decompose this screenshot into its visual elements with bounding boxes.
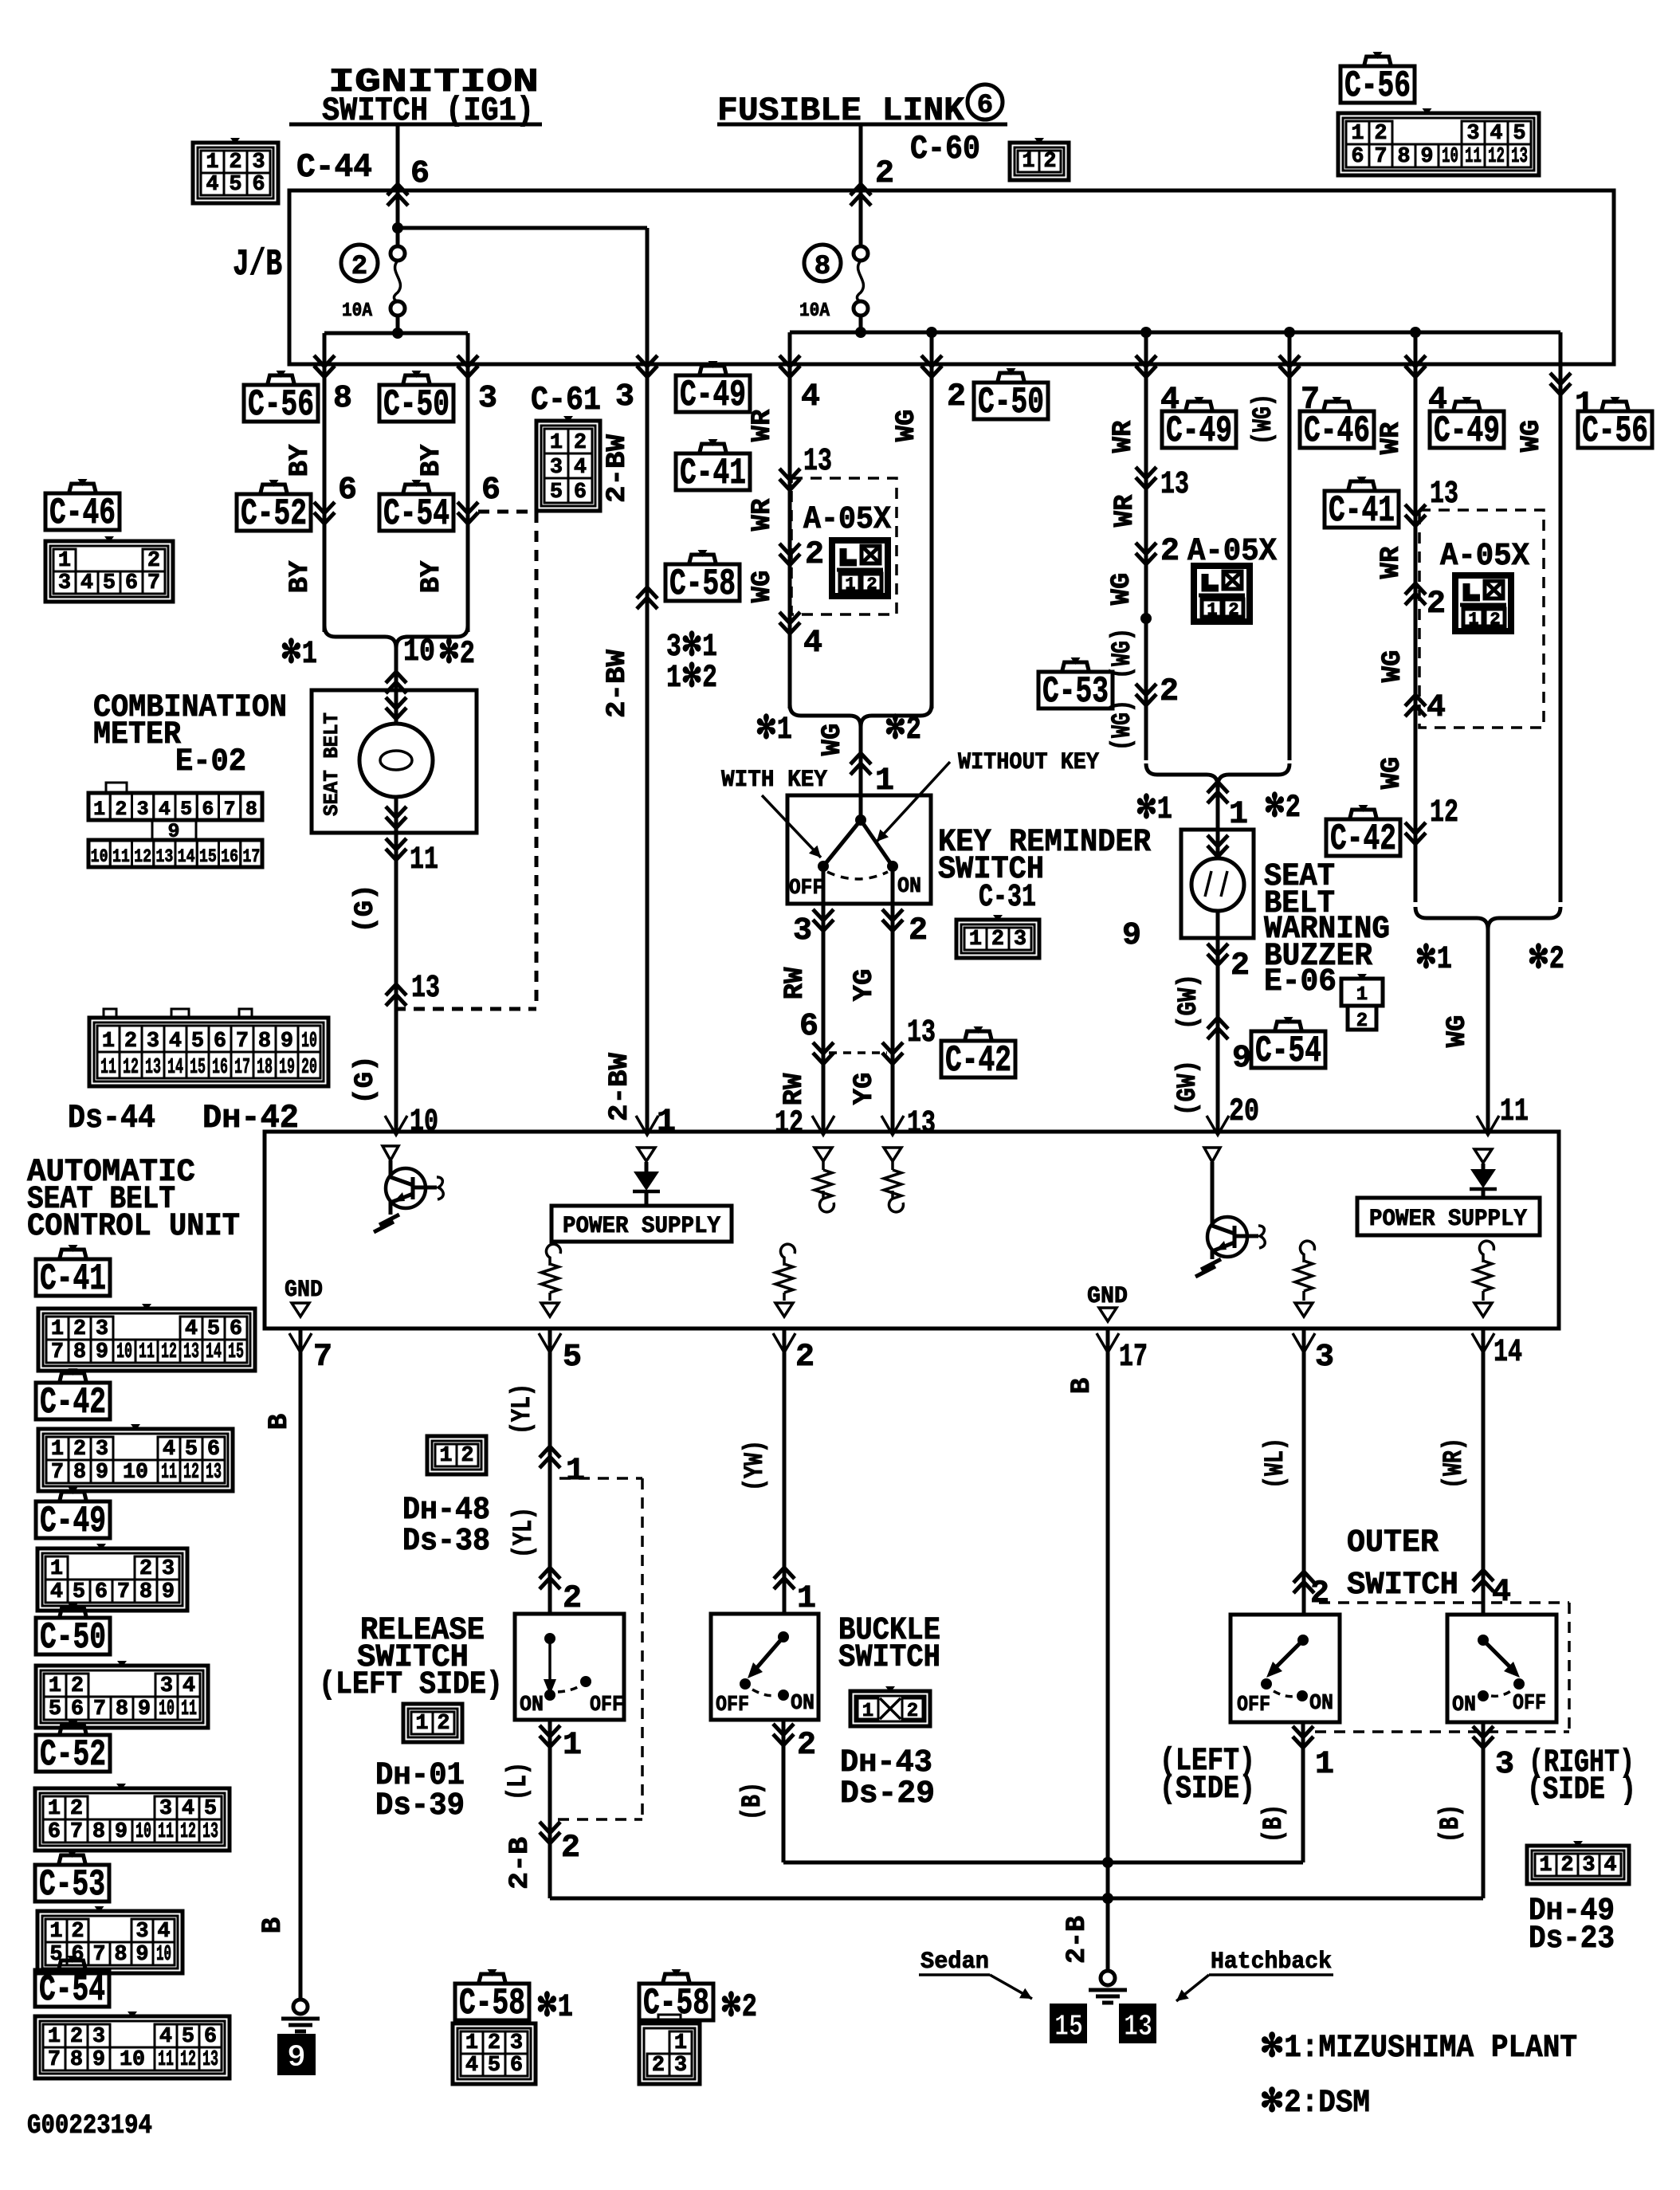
variant labels *1 WG *2 with key reminder feed (756, 712, 921, 799)
connector C-41 pin grid (38, 1304, 255, 1371)
A-05X title 2 (1187, 534, 1277, 570)
svg-text:✻1: ✻1 (536, 1990, 573, 2026)
svg-text:1: 1 (58, 549, 71, 573)
svg-text:5: 5 (103, 571, 116, 595)
svg-text:2-BW: 2-BW (603, 434, 633, 503)
brace joining WG wires right (1415, 907, 1560, 1133)
svg-text:C-41: C-41 (40, 1258, 106, 1300)
svg-text:BY: BY (417, 560, 447, 593)
svg-text:20: 20 (301, 1056, 317, 1080)
svg-text:C-56: C-56 (1344, 65, 1411, 107)
svg-text:5: 5 (229, 173, 241, 197)
svg-text:(YL): (YL) (509, 1507, 540, 1558)
connector C-50 pin grid (36, 1661, 208, 1728)
wire label (WG) col1438 (1108, 628, 1138, 679)
svg-text:2: 2 (437, 1712, 449, 1736)
svg-text:2: 2 (229, 151, 241, 175)
svg-text:E-06: E-06 (1264, 964, 1337, 1000)
svg-text:2: 2 (139, 1557, 152, 1581)
svg-text:4: 4 (1490, 122, 1502, 146)
svg-text:2: 2 (70, 2025, 83, 2049)
svg-text:7: 7 (51, 1340, 64, 1364)
wire ignition switch to J/B pin 6 (387, 124, 430, 228)
svg-text:C-50: C-50 (978, 382, 1044, 423)
seat belt warning buzzer box (1181, 830, 1254, 938)
svg-text:8: 8 (258, 1030, 271, 1054)
svg-text:C-49: C-49 (40, 1501, 106, 1542)
right side label (1527, 1745, 1636, 1808)
svg-text:1: 1 (1539, 1854, 1552, 1878)
wire J/B internal to pin 3 (2-BW feed) (646, 228, 650, 364)
svg-text:10: 10 (159, 1697, 175, 1721)
svg-text:9: 9 (96, 1461, 108, 1485)
svg-text:8: 8 (333, 381, 352, 417)
svg-text:8: 8 (116, 1697, 128, 1721)
svg-text:1: 1 (1022, 150, 1034, 174)
svg-text:2: 2 (1310, 1576, 1329, 1612)
connector C-56 label col1958 (1578, 397, 1652, 452)
drawing number (27, 2111, 152, 2141)
wire WL from pin 3 to outer switch left (1261, 1329, 1334, 1615)
svg-text:4: 4 (183, 1674, 195, 1698)
connector C-31 pin grid (956, 915, 1039, 958)
svg-text:2: 2 (1374, 122, 1387, 146)
wire B from pin 7 to ground (258, 1329, 332, 2000)
svg-text:BY: BY (417, 444, 447, 477)
connector C-52 label (237, 480, 311, 535)
svg-text:5: 5 (191, 1030, 204, 1054)
svg-text:10: 10 (120, 2048, 145, 2072)
svg-text:1: 1 (50, 1557, 63, 1581)
svg-text:C-50: C-50 (383, 384, 449, 426)
svg-text:1: 1 (1315, 1747, 1334, 1783)
svg-text:5: 5 (185, 1438, 198, 1462)
svg-text:3: 3 (1495, 1747, 1514, 1783)
svg-text:WR: WR (1110, 494, 1140, 527)
svg-text:7: 7 (313, 1340, 332, 1376)
svg-text:12: 12 (161, 1340, 177, 1364)
svg-text:7: 7 (48, 2048, 61, 2072)
svg-text:1: 1 (48, 1797, 61, 1821)
svg-text:C-42: C-42 (945, 1040, 1011, 1081)
variant labels *1 *2 right (1415, 942, 1564, 978)
buckle switch contacts (716, 1631, 814, 1717)
svg-text:C-54: C-54 (1255, 1030, 1321, 1072)
resistor R3 pin5 (541, 1244, 560, 1317)
svg-text:10: 10 (410, 1105, 438, 1140)
connector C-58 *1 pin grid (453, 2019, 536, 2084)
svg-text:BY: BY (285, 560, 316, 593)
svg-text:4: 4 (50, 1580, 63, 1604)
svg-text:1: 1 (969, 928, 982, 952)
svg-text:G00223194: G00223194 (27, 2111, 152, 2141)
labels DS-44 DH-42 (68, 1099, 299, 1137)
svg-text:(SIDE): (SIDE) (1160, 1772, 1255, 1807)
brace joining WR-WG wires (790, 704, 932, 795)
svg-text:7: 7 (1374, 145, 1387, 169)
svg-text:10: 10 (91, 846, 108, 867)
title IGNITION SWITCH (IG1) (289, 63, 542, 130)
svg-text:15: 15 (1054, 2010, 1083, 2044)
connector C-46 label left (45, 479, 120, 534)
svg-text:6: 6 (510, 2054, 523, 2078)
release switch title (319, 1613, 503, 1703)
svg-text:(YW): (YW) (740, 1440, 771, 1491)
fuse 2 10A rating (342, 300, 373, 322)
connector DH-49 pin grid (1527, 1841, 1629, 1884)
resistor R1 pin12 (814, 1148, 834, 1212)
svg-text:1: 1 (566, 1454, 585, 1489)
svg-text:YG: YG (850, 1073, 880, 1105)
wire label BY upper left (285, 444, 316, 477)
svg-text:10: 10 (156, 1943, 171, 1967)
wire YG from key reminder ON (850, 904, 936, 1142)
svg-text:3: 3 (478, 381, 497, 417)
svg-text:2: 2 (1427, 587, 1446, 622)
svg-text:2-B: 2-B (1062, 1916, 1093, 1964)
svg-text:CONTROL UNIT: CONTROL UNIT (27, 1209, 240, 1245)
svg-text:C-49: C-49 (1434, 410, 1500, 452)
svg-text:2: 2 (124, 1030, 137, 1054)
svg-text:8: 8 (114, 1943, 127, 1967)
control unit pin 11 label (1477, 1094, 1529, 1135)
svg-text:8: 8 (70, 2048, 83, 2072)
svg-text:ON: ON (791, 1692, 814, 1716)
svg-text:7: 7 (93, 1697, 106, 1721)
svg-text:C-46: C-46 (49, 493, 116, 534)
svg-text:✻2: ✻2 (1528, 942, 1564, 978)
splice node col1438 (1140, 613, 1152, 624)
svg-text:13: 13 (202, 1820, 218, 1844)
svg-text:(L): (L) (504, 1762, 534, 1800)
fuse 2 element (391, 228, 405, 333)
svg-text:17: 17 (1119, 1340, 1148, 1376)
svg-text:ON: ON (520, 1694, 544, 1717)
svg-text:1: 1 (49, 1920, 62, 1944)
svg-text:8: 8 (139, 1580, 152, 1604)
svg-text:19: 19 (279, 1056, 295, 1080)
variant labels *1 1 *2 buzzer (1136, 782, 1301, 833)
svg-text:C-58: C-58 (459, 1983, 525, 2024)
svg-text:✻2: ✻2 (720, 1990, 757, 2026)
svg-text:6: 6 (1351, 145, 1364, 169)
svg-text:1: 1 (93, 798, 105, 821)
svg-text:WG: WG (1378, 650, 1408, 683)
connector C-49 label (676, 361, 750, 416)
svg-text:C-56: C-56 (248, 384, 314, 426)
svg-text:10: 10 (1442, 145, 1458, 169)
brace joining BY wires (324, 626, 468, 690)
svg-text:14: 14 (178, 846, 195, 867)
connector C-53 pin grid (37, 1906, 183, 1973)
svg-text:2: 2 (1228, 600, 1238, 620)
dashed variant link RW-YG (829, 1051, 887, 1054)
transistor Q2 (1195, 1148, 1265, 1277)
svg-text:(G): (G) (351, 1055, 381, 1104)
svg-text:2: 2 (991, 928, 1004, 952)
connector C-42 label right (1326, 805, 1400, 860)
outer switch dashed box (1315, 1603, 1569, 1732)
svg-text:4: 4 (169, 1030, 182, 1054)
svg-text:7: 7 (224, 798, 236, 821)
ground bus release to outer-right (550, 1893, 1483, 1904)
fuse 2 output bus (324, 328, 468, 364)
svg-text:6: 6 (48, 1820, 61, 1844)
svg-text:WG: WG (1517, 420, 1547, 453)
svg-text:3: 3 (674, 2054, 687, 2078)
svg-text:4: 4 (185, 1317, 198, 1341)
svg-text:(WR): (WR) (1439, 1438, 1470, 1489)
connector DH-48 DS-38 pin box (427, 1436, 486, 1474)
svg-text:15: 15 (190, 1056, 206, 1080)
A-05X connector icon 2 (1194, 566, 1250, 622)
svg-text:6: 6 (977, 91, 993, 121)
svg-text:10A: 10A (799, 300, 830, 322)
wire meter pin 11 to control unit pin 10 (351, 833, 440, 1140)
svg-text:5: 5 (180, 798, 192, 821)
svg-text:3: 3 (615, 379, 634, 415)
svg-text:Dн-42: Dн-42 (202, 1099, 299, 1137)
svg-text:2: 2 (907, 1701, 918, 1722)
svg-text:18: 18 (257, 1056, 273, 1080)
pin 12 marker col1776 (1405, 795, 1458, 844)
svg-text:4: 4 (1427, 690, 1446, 726)
wire 2-BW from J/B pin 3 (615, 355, 657, 1133)
svg-text:SWITCH: SWITCH (838, 1640, 940, 1676)
svg-text:POWER SUPPLY: POWER SUPPLY (1369, 1206, 1527, 1233)
svg-text:2: 2 (115, 798, 127, 821)
svg-text:WG: WG (748, 571, 778, 603)
connector C-56 label top right (1340, 52, 1415, 107)
buzzer symbol (1191, 830, 1244, 938)
svg-text:12: 12 (1430, 795, 1458, 831)
svg-text:SEAT BELT: SEAT BELT (320, 712, 343, 816)
svg-text:11: 11 (1465, 145, 1482, 169)
resistor R5 pin3 (1295, 1241, 1314, 1317)
svg-text:8: 8 (92, 1820, 105, 1844)
pin 2 marker col1776 (1405, 583, 1446, 622)
svg-text:9: 9 (92, 2048, 105, 2072)
svg-text:WG: WG (1377, 757, 1407, 790)
svg-text:7: 7 (147, 571, 160, 595)
left side label (1160, 1744, 1255, 1807)
svg-text:6: 6 (252, 173, 265, 197)
svg-text:2-B: 2-B (505, 1837, 536, 1890)
svg-text:METER: METER (93, 717, 181, 753)
svg-text:3: 3 (1466, 122, 1479, 146)
node junction ignition branch (392, 222, 647, 234)
svg-text:2: 2 (561, 1831, 580, 1866)
svg-text:5: 5 (550, 481, 563, 504)
svg-text:1: 1 (51, 1438, 64, 1462)
svg-text:J/B: J/B (233, 244, 282, 285)
wire WG from J/B pin 1 (col 1958) (1550, 364, 1594, 902)
svg-text:B: B (1067, 1378, 1097, 1394)
connector C-42 pin grid (38, 1424, 233, 1491)
svg-text:10: 10 (301, 1030, 317, 1054)
svg-text:1: 1 (563, 1728, 582, 1764)
svg-text:5: 5 (207, 1317, 220, 1341)
svg-text:OFF: OFF (716, 1694, 749, 1717)
wire L 2-B from release switch (504, 1720, 582, 1898)
fuse 8 10A rating (799, 300, 830, 322)
svg-text:C-53: C-53 (39, 1864, 105, 1905)
pin 2 marker (779, 537, 824, 573)
svg-text:12: 12 (1488, 145, 1505, 169)
connector C-54 pin grid (35, 2011, 230, 2078)
wire YL from pin 5 to release switch (508, 1329, 585, 1617)
svg-text:(SIDE ): (SIDE ) (1527, 1772, 1636, 1808)
svg-text:C-50: C-50 (40, 1617, 106, 1658)
svg-text:9: 9 (1232, 1041, 1251, 1077)
svg-text:10: 10 (116, 1340, 132, 1364)
release switch box (515, 1614, 624, 1720)
wire WR-WG from J/B pin 4 (col 1438) (1136, 355, 1180, 760)
connector C-58 *2 label (639, 1969, 757, 2026)
svg-text:WITH KEY: WITH KEY (721, 767, 827, 794)
svg-text:(GW): (GW) (1173, 1060, 1203, 1116)
A-05X connector icon 3 (1455, 575, 1511, 631)
svg-text:12: 12 (775, 1106, 803, 1142)
svg-text:✻1: ✻1 (1136, 792, 1172, 828)
svg-text:12: 12 (134, 846, 151, 867)
svg-text:4: 4 (1603, 1854, 1616, 1878)
svg-text:3: 3 (793, 913, 812, 949)
svg-text:(G): (G) (351, 884, 381, 932)
J/B label (233, 244, 282, 285)
svg-text:9: 9 (96, 1340, 108, 1364)
svg-text:2-BW: 2-BW (603, 649, 633, 718)
svg-text:YG: YG (850, 969, 880, 1002)
svg-text:6: 6 (125, 571, 138, 595)
pin 13 marker col1776 (1405, 477, 1458, 526)
svg-text:OUTER: OUTER (1347, 1525, 1439, 1561)
svg-text:1: 1 (206, 151, 218, 175)
connector C-54 inline marker (457, 473, 500, 524)
wire label WG col1958 (1517, 420, 1547, 453)
wire label WR col1776 (1376, 422, 1407, 454)
svg-text:3: 3 (147, 1030, 159, 1054)
svg-text:6: 6 (95, 1580, 108, 1604)
svg-text:2: 2 (73, 1438, 86, 1462)
svg-text:2: 2 (909, 913, 928, 949)
connector C-49 label col1438 (1162, 397, 1236, 452)
hatchback callout (1176, 1949, 1333, 2001)
svg-text:6: 6 (71, 1697, 84, 1721)
svg-text:8: 8 (245, 798, 257, 821)
svg-text:C-58: C-58 (643, 1983, 709, 2024)
svg-text:1: 1 (797, 1581, 816, 1617)
svg-text:Hatchback: Hatchback (1211, 1949, 1332, 1976)
svg-text:(LEFT SIDE): (LEFT SIDE) (319, 1667, 503, 1703)
svg-text:C-49: C-49 (1166, 410, 1232, 452)
connector C-54 label right (1251, 1017, 1325, 1072)
svg-text:4: 4 (801, 379, 820, 415)
svg-text:1: 1 (845, 575, 855, 595)
wire label WG2 col1776 (1377, 757, 1407, 790)
svg-text:(WG): (WG) (1249, 394, 1279, 445)
connector DH-43 pin box 1X2 (850, 1686, 930, 1726)
svg-text:12: 12 (183, 1461, 199, 1485)
diode D2 (1470, 1149, 1497, 1198)
svg-text:7: 7 (117, 1580, 130, 1604)
connector C-50 label right (974, 368, 1048, 423)
control unit pin 1 label (636, 1105, 676, 1140)
svg-text:C-46: C-46 (1304, 410, 1370, 452)
svg-text:2: 2 (795, 1340, 814, 1376)
svg-text:4: 4 (159, 798, 171, 821)
svg-text:1: 1 (465, 2031, 478, 2055)
svg-text:C-41: C-41 (1329, 490, 1395, 532)
outer switch right box (1447, 1615, 1556, 1722)
svg-text:11: 11 (1500, 1094, 1529, 1130)
svg-text:OFF: OFF (1237, 1694, 1270, 1717)
svg-text:13: 13 (1430, 477, 1458, 512)
connector C-42 label column (36, 1368, 110, 1423)
svg-text:Sedan: Sedan (920, 1949, 989, 1976)
connector C-50 label (379, 371, 453, 426)
svg-text:6: 6 (214, 1030, 226, 1054)
connector C-54 label (379, 480, 453, 535)
connector C-53 label (1038, 657, 1113, 712)
svg-text:POWER SUPPLY: POWER SUPPLY (563, 1213, 720, 1240)
outer switch left contacts (1237, 1635, 1333, 1717)
svg-text:WR: WR (1109, 420, 1139, 453)
svg-text:GND: GND (285, 1277, 323, 1304)
svg-text:A-05X: A-05X (1440, 539, 1529, 575)
svg-text:11: 11 (410, 842, 438, 878)
wire label WG col1776 (1378, 650, 1408, 683)
resistor R4 pin2 (775, 1244, 795, 1317)
svg-text:C-49: C-49 (680, 375, 746, 416)
svg-text:13: 13 (803, 444, 832, 480)
wire WR-WG from J/B pin 4 (col 1776) (1405, 355, 1447, 902)
svg-text:9: 9 (115, 1820, 128, 1844)
junction A-05X dashed box (791, 478, 897, 614)
without key label and arrow (877, 749, 1099, 842)
svg-text:7: 7 (92, 1943, 105, 1967)
ground reference 13 black box (1119, 2004, 1156, 2044)
outer switch right contacts (1452, 1635, 1546, 1717)
svg-text:RW: RW (779, 1073, 810, 1105)
pin 13 marker (779, 444, 832, 490)
connector C-52 inline marker (314, 473, 357, 524)
svg-text:4: 4 (206, 173, 218, 197)
wire label (WG) col1618 (1249, 394, 1279, 445)
pin 4 marker col1776 (1405, 690, 1446, 726)
svg-text:4: 4 (465, 2054, 478, 2078)
svg-text:Dѕ-23: Dѕ-23 (1529, 1921, 1615, 1957)
combination meter box (312, 690, 477, 833)
svg-text:BY: BY (285, 444, 316, 477)
svg-text:Dѕ-44: Dѕ-44 (68, 1099, 155, 1137)
wire label WG col1438 (1107, 573, 1137, 606)
svg-text:3: 3 (96, 1317, 108, 1341)
svg-text:5: 5 (49, 1697, 61, 1721)
wire label WR 2 (748, 498, 778, 531)
connector C-60 pin box 1-2 (1010, 138, 1069, 180)
key reminder switch box (787, 795, 931, 904)
svg-text:5: 5 (182, 2025, 194, 2049)
svg-text:6: 6 (410, 156, 430, 192)
svg-text:OFF: OFF (1513, 1692, 1546, 1716)
connector C-49 pin grid (37, 1544, 187, 1611)
svg-text:1: 1 (415, 1712, 428, 1736)
wire BY from J/B pin 3 (457, 355, 497, 632)
svg-text:C-52: C-52 (40, 1734, 106, 1776)
connector C-53 label column (35, 1851, 109, 1905)
svg-text:6: 6 (204, 2025, 217, 2049)
